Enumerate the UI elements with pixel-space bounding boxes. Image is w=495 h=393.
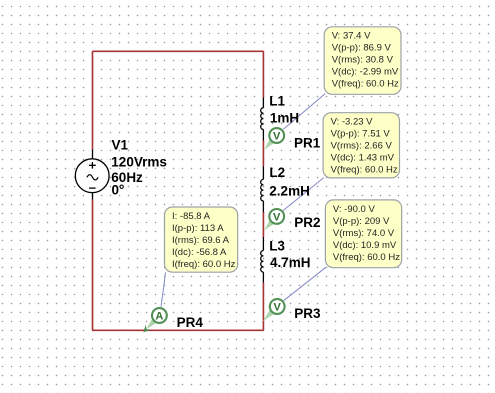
svg-text:I(p-p): 113 A: I(p-p): 113 A	[172, 223, 224, 234]
V1 bottom terminal stub	[92, 193, 94, 200]
svg-text:PR3: PR3	[294, 306, 321, 321]
svg-text:I(dc): -56.8 A: I(dc): -56.8 A	[172, 247, 227, 258]
svg-text:120Vrms: 120Vrms	[111, 154, 167, 169]
svg-text:V: V	[273, 130, 281, 142]
wire top	[93, 50, 264, 52]
inductor L3 top lead	[262, 237, 264, 251]
svg-text:V(freq): 60.0 Hz: V(freq): 60.0 Hz	[332, 79, 399, 90]
svg-text:V(p-p): 7.51 V: V(p-p): 7.51 V	[331, 129, 391, 140]
wire right: L2 to L3	[262, 212, 264, 237]
inductor L1 coil	[261, 108, 264, 130]
V1 top terminal stub	[92, 150, 94, 160]
measurement box PR4 current readings	[165, 207, 238, 272]
wire bottom	[93, 329, 264, 331]
V1 sine wave	[87, 175, 98, 180]
probe PR1 circle	[269, 128, 284, 143]
wire left upper (source to top)	[92, 51, 94, 149]
svg-text:1mH: 1mH	[270, 111, 299, 126]
V1 plus sign	[89, 162, 96, 169]
leader line PR2 to box	[283, 178, 324, 211]
svg-text:V(dc): 1.43 mV: V(dc): 1.43 mV	[331, 153, 395, 164]
probe PR4 circle	[152, 308, 167, 323]
probe PR4 pointer	[146, 317, 158, 330]
svg-text:V: V	[273, 211, 281, 223]
svg-text:L3: L3	[269, 238, 285, 253]
leader line PR4 to box	[161, 272, 166, 307]
svg-text:L1: L1	[269, 94, 285, 109]
leader line PR3 to box	[284, 267, 326, 301]
inductor L3 bottom lead	[262, 272, 264, 283]
wire right: L3 to bottom corner	[262, 283, 264, 331]
inductor L1 top lead	[262, 98, 264, 108]
svg-text:I(freq): 60.0 Hz: I(freq): 60.0 Hz	[172, 259, 236, 270]
svg-text:PR2: PR2	[294, 215, 320, 230]
svg-text:V(rms): 30.8 V: V(rms): 30.8 V	[332, 55, 394, 66]
measurement box PR3 voltage readings	[325, 200, 401, 268]
measurement box PR1 voltage readings	[324, 27, 401, 95]
inductor L1 bottom lead	[262, 129, 264, 140]
svg-text:V: -90.0 V: V: -90.0 V	[333, 204, 376, 215]
svg-text:V(p-p): 86.9 V: V(p-p): 86.9 V	[332, 43, 392, 54]
svg-text:V(rms): 2.66 V: V(rms): 2.66 V	[331, 141, 393, 152]
probe PR2 pointer	[264, 218, 275, 230]
probe PR4 arrowhead	[143, 325, 151, 333]
inductor L2 top lead	[262, 166, 264, 179]
svg-text:V: 37.4 V: V: 37.4 V	[332, 31, 371, 42]
AC voltage source V1 circle	[75, 159, 109, 193]
probe PR1 pointer	[264, 137, 275, 149]
leader line PR1 to box	[283, 94, 325, 130]
svg-text:V1: V1	[112, 138, 129, 153]
svg-text:V: -3.23 V: V: -3.23 V	[331, 117, 374, 128]
probe PR3 pointer	[263, 308, 276, 321]
svg-text:0°: 0°	[112, 183, 125, 198]
svg-text:V(p-p): 209 V: V(p-p): 209 V	[333, 216, 390, 227]
wire left lower (source to bottom)	[92, 200, 94, 331]
svg-text:V(dc): -2.99 mV: V(dc): -2.99 mV	[332, 67, 399, 78]
svg-text:L2: L2	[269, 165, 285, 180]
inductor L2 bottom lead	[262, 201, 264, 212]
svg-text:I: -85.8 A: I: -85.8 A	[172, 211, 211, 222]
inductor L3 coil	[261, 251, 264, 273]
svg-text:PR1: PR1	[294, 135, 321, 150]
svg-text:4.7mH: 4.7mH	[270, 255, 311, 270]
probe PR3 circle	[270, 299, 285, 314]
svg-text:2.2mH: 2.2mH	[269, 183, 310, 198]
wire right: top corner to L1	[262, 51, 264, 97]
V1 minus sign	[89, 187, 96, 189]
svg-text:V(rms): 74.0 V: V(rms): 74.0 V	[333, 228, 395, 239]
svg-text:A: A	[155, 310, 163, 322]
inductor L2 coil	[261, 179, 264, 201]
measurement box PR2 voltage readings	[323, 113, 399, 178]
svg-text:I(rms): 69.6 A: I(rms): 69.6 A	[172, 235, 230, 246]
svg-text:PR4: PR4	[177, 315, 204, 330]
svg-text:V(freq): 60.0 Hz: V(freq): 60.0 Hz	[333, 252, 400, 263]
wire right: L1 to L2	[262, 141, 264, 167]
svg-text:V: V	[274, 301, 282, 313]
svg-text:V(freq): 60.0 Hz: V(freq): 60.0 Hz	[331, 165, 398, 176]
probe PR2 circle	[269, 209, 284, 224]
svg-text:V(dc): 10.9 mV: V(dc): 10.9 mV	[333, 240, 397, 251]
